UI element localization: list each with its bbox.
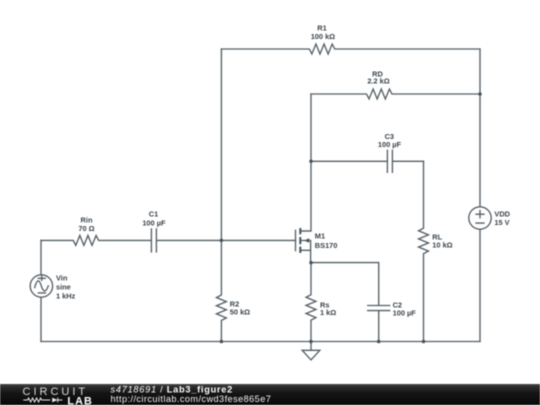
svg-text:s4718691 / Lab3_figure2: s4718691 / Lab3_figure2 (111, 384, 233, 394)
svg-text:100 kΩ: 100 kΩ (311, 32, 335, 41)
svg-text:C1: C1 (149, 210, 158, 219)
svg-text:100 µF: 100 µF (393, 308, 417, 317)
svg-text:LAB: LAB (67, 396, 93, 405)
svg-text:70 Ω: 70 Ω (78, 224, 94, 233)
svg-text:Vin: Vin (56, 274, 68, 283)
svg-text:http://circuitlab.com/cwd3fese: http://circuitlab.com/cwd3fese865e7 (111, 394, 272, 404)
svg-text:2.2 kΩ: 2.2 kΩ (367, 77, 389, 86)
svg-text:1 kHz: 1 kHz (56, 292, 76, 301)
svg-text:BS170: BS170 (315, 241, 338, 250)
svg-text:100 µF: 100 µF (142, 218, 166, 227)
svg-text:1 kΩ: 1 kΩ (320, 308, 336, 317)
svg-text:R1: R1 (317, 24, 326, 33)
svg-text:100 µF: 100 µF (378, 140, 402, 149)
svg-text:10 kΩ: 10 kΩ (432, 241, 452, 250)
svg-text:50 kΩ: 50 kΩ (230, 308, 250, 317)
svg-text:15 V: 15 V (494, 218, 509, 227)
svg-text:sine: sine (56, 282, 71, 291)
svg-text:M1: M1 (315, 232, 325, 241)
